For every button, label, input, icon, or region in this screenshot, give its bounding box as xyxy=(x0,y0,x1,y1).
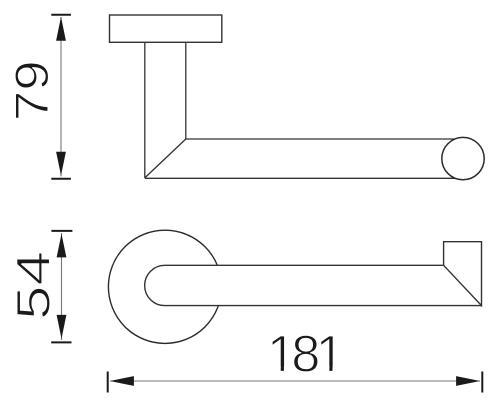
dimension 54: up arrowhead xyxy=(57,234,67,258)
dimension 54: bottom extension tick xyxy=(51,341,71,343)
svg-text:181: 181 xyxy=(267,326,343,384)
dimension 54: dim line xyxy=(61,233,63,340)
bar end cap circle (side view) xyxy=(442,137,484,179)
dimension 79: bottom extension tick xyxy=(51,178,71,180)
wall flange plate (side view) xyxy=(110,15,222,42)
dimension 181: left arrowhead xyxy=(110,376,134,386)
dimension 79: dim line xyxy=(60,17,62,177)
bar bottom line (side view) xyxy=(145,177,457,179)
dimension 79: top extension tick xyxy=(51,14,71,16)
svg-text:54: 54 xyxy=(7,251,60,320)
bar top line (side view) xyxy=(186,138,456,140)
mask foot serif of first 1 xyxy=(270,367,281,374)
mask foot serif of second 1 xyxy=(319,367,329,374)
svg-text:79: 79 xyxy=(5,60,58,121)
stem right wire xyxy=(185,42,187,139)
dimension 54: down arrowhead xyxy=(57,315,67,339)
dimension 79: up arrowhead xyxy=(56,17,66,41)
dimension 181: dim line xyxy=(110,380,480,382)
upturned end piece (front view) xyxy=(444,242,482,306)
miter diagonal (side view corner) xyxy=(145,139,186,178)
dimension 54: top extension tick xyxy=(51,230,72,232)
wall flange circle (front view) xyxy=(108,230,221,343)
stem left wire xyxy=(144,42,146,178)
bar body with rounded left end (front view) xyxy=(145,265,482,305)
dimension 181: left extension tick xyxy=(107,372,109,393)
dimension 79: down arrowhead xyxy=(56,152,66,176)
dimension 181: right extension tick xyxy=(481,372,483,393)
dimension 181: right arrowhead xyxy=(456,376,480,386)
